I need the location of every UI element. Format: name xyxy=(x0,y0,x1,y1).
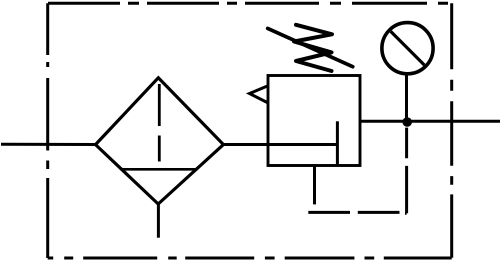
filter element dashed line xyxy=(158,84,161,168)
pilot corner piece xyxy=(405,212,407,215)
wire: output line xyxy=(360,120,500,123)
pilot line bottom dashed xyxy=(308,211,399,214)
enclosure top border xyxy=(48,2,452,5)
relief arrowhead xyxy=(250,86,269,103)
enclosure bottom border xyxy=(48,257,452,260)
wire: input line xyxy=(1,143,96,146)
enclosure left border xyxy=(46,3,49,258)
spring xyxy=(294,25,332,71)
junction node xyxy=(402,117,412,127)
gauge stem xyxy=(405,74,408,119)
regulator body U1 xyxy=(268,76,360,166)
pilot line right vertical dashed xyxy=(405,128,408,214)
filter F1 diamond body xyxy=(96,78,224,204)
pilot line left vertical xyxy=(313,166,316,205)
gauge needle diagonal xyxy=(391,31,425,65)
pressure gauge G1 xyxy=(382,23,433,74)
regulator internal passage vertical xyxy=(336,121,339,165)
adjustment arrow xyxy=(268,28,353,66)
water separator chord xyxy=(122,168,198,171)
drain stub xyxy=(157,204,160,238)
wire: filter to regulator line xyxy=(223,143,337,146)
enclosure right border xyxy=(450,3,453,258)
